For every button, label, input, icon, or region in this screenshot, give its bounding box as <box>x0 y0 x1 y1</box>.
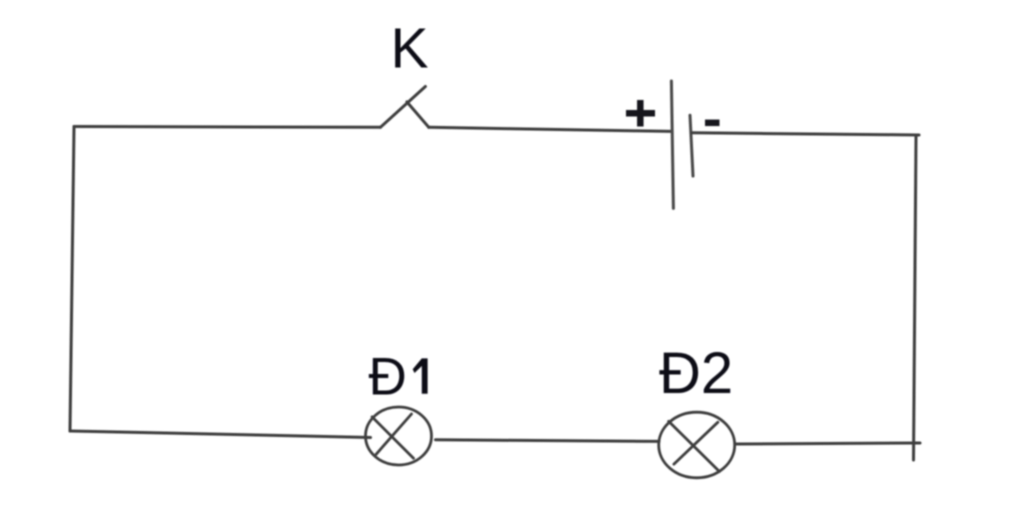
lamp D2 cross stroke 1 <box>669 421 720 471</box>
switch K right lead <box>407 102 429 127</box>
lamp D1 cross stroke 1 <box>372 417 413 458</box>
lamp D2 cross stroke 2 <box>674 422 718 464</box>
lamp D1 circle <box>366 407 432 465</box>
battery - polarity mark <box>705 120 720 127</box>
lamp D2 circle <box>659 412 735 478</box>
battery positive plate (long) <box>671 81 673 208</box>
wire left vertical <box>70 127 74 432</box>
battery + polarity mark <box>626 100 655 127</box>
lamp D1 cross stroke 2 <box>376 414 412 454</box>
svg-text:Đ: Đ <box>369 348 407 407</box>
wire bottom-left (corner to lamp D1) <box>70 431 371 438</box>
wire right vertical (with overshoot tail) <box>914 136 917 460</box>
svg-text:K: K <box>391 17 429 81</box>
svg-text:Đ2: Đ2 <box>659 341 733 406</box>
switch K arm <box>380 87 425 128</box>
wire bottom-right (lamp D2 to corner, overshoot) <box>735 443 920 444</box>
battery negative plate (short) <box>690 115 693 176</box>
wire battery - to top-right corner <box>692 133 919 135</box>
wire top-left (corner to switch K) <box>74 125 380 129</box>
wire between lamps D1 and D2 <box>436 440 660 442</box>
wire switch to battery + <box>429 127 672 131</box>
